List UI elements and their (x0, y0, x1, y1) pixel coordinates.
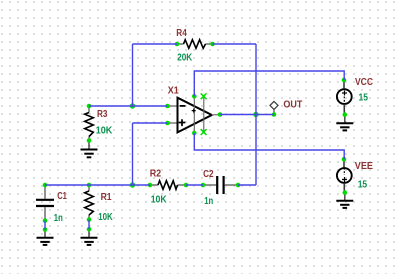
VCC value 15 (359, 91, 369, 103)
svg-text:R1: R1 (101, 192, 112, 203)
voltage source VCC (337, 80, 352, 115)
wire: op-amp output to OUT node (220, 114, 274, 116)
svg-text:C1: C1 (57, 191, 67, 202)
pin dot VCC top (342, 78, 347, 83)
pin dot R2 left (148, 183, 153, 188)
svg-text:VEE: VEE (355, 160, 373, 172)
wire: V- supply from op-amp to VEE (194, 133, 344, 159)
pin dot op-amp output (218, 112, 223, 117)
pin dot R4 right (210, 42, 215, 47)
resistor R1 label (101, 192, 112, 203)
resistor R2 value 10K (151, 194, 168, 205)
capacitor C2 label (203, 169, 214, 180)
pin dot R1 bottom (87, 217, 92, 222)
VEE value 15 (358, 178, 368, 190)
wire: R1 bottom to ground (88, 220, 90, 230)
capacitor C1 label (57, 191, 67, 202)
svg-text:OUT: OUT (283, 99, 302, 111)
ground under VCC (336, 115, 353, 131)
wire: C2 right to output vertical corner (238, 184, 256, 186)
svg-text:R3: R3 (97, 109, 108, 120)
svg-text:R2: R2 (150, 168, 162, 179)
svg-text:15: 15 (358, 178, 368, 190)
resistor R2 (150, 181, 186, 190)
wire: R2 to C2 horizontal (186, 184, 203, 186)
pin dot R1 top (87, 183, 92, 188)
ground under C1 (37, 230, 54, 245)
capacitor C1 value 1n (54, 213, 63, 224)
svg-text:1n: 1n (54, 213, 63, 224)
pin dot R1 ground (87, 227, 92, 232)
junction node non-inverting bottom (130, 182, 135, 187)
svg-text:R4: R4 (176, 28, 187, 39)
capacitor C1 (36, 185, 54, 221)
pin dot R2 right (184, 183, 189, 188)
pin dot op-amp V+ (192, 94, 197, 99)
wire: output net vertical (R4 right down to C2 level) (255, 44, 257, 185)
ground under R1 (81, 229, 98, 245)
svg-text:15: 15 (359, 91, 369, 103)
svg-text:C2: C2 (203, 169, 214, 180)
pin dot C2 left (201, 183, 206, 188)
junction node inverting input (130, 103, 135, 108)
OUT label (283, 99, 302, 111)
resistor R3 (85, 106, 94, 141)
pin dot op-amp non-inverting input (165, 121, 170, 126)
wire: R3 to inverting input horizontal (89, 105, 168, 107)
svg-text:VCC: VCC (355, 76, 373, 88)
VCC label (355, 76, 373, 88)
pin dot C2 right (236, 183, 241, 188)
wire: top feedback horizontal left of R4 (133, 43, 178, 45)
voltage source VEE (337, 159, 352, 192)
wire: feedback vertical down to inverting node (132, 44, 134, 106)
capacitor C2 (203, 176, 238, 194)
resistor R4 (177, 40, 213, 49)
op-amp X1 unconnected pin marker bottom (201, 129, 207, 135)
pin dot op-amp inverting input (165, 104, 170, 109)
resistor R4 value 20K (177, 52, 193, 63)
svg-text:1n: 1n (204, 196, 213, 207)
resistor R3 label (97, 109, 108, 120)
ground under VEE (336, 193, 353, 208)
wire: non-inverting input horizontal (133, 122, 168, 124)
capacitor C2 value 1n (204, 196, 213, 207)
pin dot op-amp V- (192, 131, 197, 136)
pin dot R3 bottom (87, 138, 92, 143)
junction node output (253, 112, 258, 117)
resistor R3 value 10K (96, 126, 113, 137)
pin dot R3 top (87, 104, 92, 109)
pin dot VEE bottom (343, 190, 348, 195)
resistor R2 label (150, 168, 162, 179)
pin dot R4 left (175, 42, 180, 47)
pin dot OUT (272, 112, 277, 117)
pin dot VCC bottom (343, 112, 348, 117)
svg-text:20K: 20K (177, 52, 193, 63)
OUT node diamond (270, 101, 278, 114)
pin dot C1 top (43, 183, 48, 188)
VEE label (355, 160, 373, 172)
wire: V+ supply from op-amp to VCC (194, 71, 344, 96)
wire: non-inverting input vertical down to bottom net (132, 123, 134, 185)
pin dot C1 bottom (43, 218, 48, 223)
op-amp X1 unconnected pin marker top (201, 93, 207, 99)
svg-text:X1: X1 (168, 85, 179, 96)
svg-text:10K: 10K (96, 126, 113, 137)
wire: C1 bottom to ground (44, 221, 46, 230)
wire: top feedback horizontal right of R4 (213, 43, 257, 45)
op-amp X1 label (168, 85, 179, 96)
wire: bottom net horizontal C1-R1-R2 (45, 184, 150, 186)
pin dot C1 ground (43, 227, 48, 232)
resistor R4 label (176, 28, 187, 39)
svg-text:10K: 10K (151, 194, 168, 205)
op-amp X1 (168, 96, 221, 135)
pin dot VEE top (342, 157, 347, 162)
svg-text:10K: 10K (98, 212, 113, 223)
ground under R3 (81, 141, 98, 158)
resistor R1 value 10K (98, 212, 113, 223)
resistor R1 (85, 185, 94, 220)
